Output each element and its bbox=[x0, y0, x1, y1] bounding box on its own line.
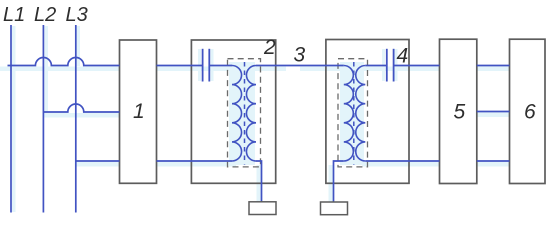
svg-text:L3: L3 bbox=[66, 4, 88, 26]
block 6 bbox=[510, 39, 546, 183]
net L3 vertical bbox=[75, 25, 77, 213]
block 4 bbox=[326, 40, 409, 184]
transformer T2 core bbox=[244, 62, 246, 165]
svg-text:6: 6 bbox=[524, 101, 536, 124]
wire C2 to T2 primary top bbox=[209, 65, 232, 67]
wire C4 to block 5 bbox=[394, 65, 440, 67]
svg-text:1: 1 bbox=[133, 100, 145, 123]
wire block 5 to block 6 middle bbox=[477, 111, 510, 113]
block 2 bbox=[191, 40, 275, 183]
ground plate G2 bbox=[321, 202, 348, 215]
transformer T4 screen (dashed box) bbox=[338, 59, 368, 167]
transformer T4 primary winding bbox=[344, 66, 354, 162]
svg-text:4: 4 bbox=[397, 45, 409, 68]
transformer T4 core bbox=[353, 62, 355, 165]
block 5 bbox=[440, 39, 477, 183]
svg-text:L1: L1 bbox=[3, 4, 25, 26]
ground plate G1 bbox=[249, 202, 276, 215]
net L2 vertical bbox=[42, 25, 44, 213]
wire phase L1 to block 1 (hops over L2, L3) bbox=[8, 58, 120, 66]
transformer T2 primary winding bbox=[232, 66, 242, 162]
transformer T2 screen (dashed box) bbox=[228, 59, 261, 167]
capacitor C2 bbox=[203, 49, 210, 82]
svg-text:2: 2 bbox=[263, 36, 276, 59]
wire phase L2 to block 1 (hop over L3) bbox=[43, 104, 119, 112]
wire block 5 to block 6 bottom bbox=[477, 160, 510, 162]
wire block 1 to T2 primary bottom bbox=[157, 160, 233, 162]
wire block 1 to capacitor C2 bbox=[157, 65, 203, 67]
svg-text:5: 5 bbox=[454, 101, 466, 124]
wire T4 secondary bottom to block 5 bbox=[365, 160, 439, 162]
svg-text:3: 3 bbox=[294, 44, 306, 67]
wire T2 secondary top to node 3 to T4 primary top bbox=[256, 65, 344, 67]
block 1 bbox=[120, 40, 157, 183]
wire T4 secondary top to capacitor C4 bbox=[365, 65, 387, 67]
wire block 5 to block 6 top bbox=[477, 65, 510, 67]
wire phase L3 to block 1 bbox=[76, 160, 120, 162]
svg-text:L2: L2 bbox=[34, 4, 56, 26]
wire halo tint bbox=[0, 26, 510, 212]
transformer T2 secondary winding bbox=[246, 66, 256, 162]
capacitor C4 bbox=[387, 49, 394, 82]
wire T4 primary bottom to ground bbox=[334, 161, 344, 203]
wire T2 secondary bottom to ground bbox=[256, 161, 262, 202]
transformer T4 secondary winding bbox=[356, 66, 366, 162]
net L1 vertical bbox=[10, 25, 12, 213]
